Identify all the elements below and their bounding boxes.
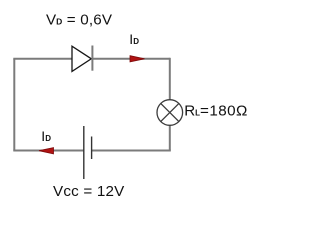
wire top left (to diode anode) <box>13 58 72 60</box>
svg-text:ID: ID <box>129 31 139 47</box>
svg-text:ID: ID <box>41 128 51 144</box>
current arrow ID top (red, pointing right) <box>130 56 145 62</box>
lamp RL circle <box>157 100 183 126</box>
battery Vcc short plate <box>91 137 93 160</box>
lamp RL cross <box>161 103 179 121</box>
diode D1 triangle <box>72 46 91 71</box>
svg-text:VD = 0,6V: VD = 0,6V <box>46 12 113 29</box>
battery Vcc long plate <box>83 126 85 179</box>
wire top right (diode cathode to corner) <box>92 58 169 60</box>
diode D1 cathode bar <box>91 46 93 71</box>
wire bottom right (corner to battery) <box>92 150 171 152</box>
wire bottom left (battery to corner) <box>13 150 84 152</box>
svg-text:RL=180Ω: RL=180Ω <box>184 103 248 120</box>
svg-text:Vcc = 12V: Vcc = 12V <box>53 183 125 200</box>
wire left vertical <box>13 59 15 151</box>
wire right upper (corner to lamp top) <box>169 58 171 100</box>
wire right lower (lamp bottom to corner) <box>169 125 171 151</box>
current arrow ID bottom (red, pointing left) <box>39 148 54 154</box>
